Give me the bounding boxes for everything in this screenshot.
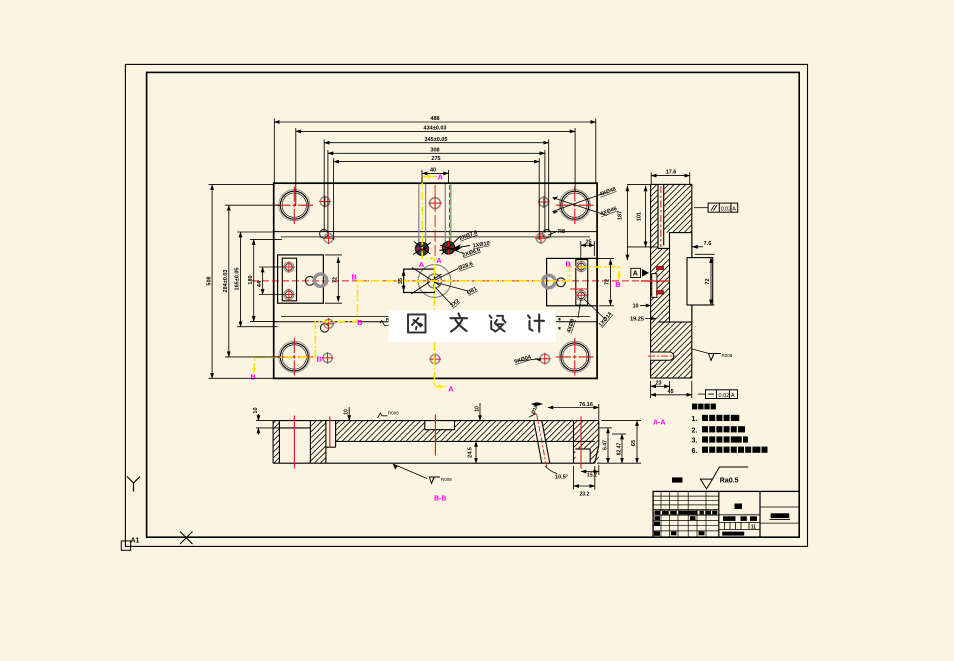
sprue puller hole left (dark) bbox=[415, 242, 430, 257]
top extension lines bbox=[273, 119, 275, 184]
AA mid column hatch bbox=[651, 248, 670, 322]
svg-text:A: A bbox=[731, 393, 735, 399]
svg-text:19.25: 19.25 bbox=[630, 317, 644, 323]
title block outer bbox=[653, 491, 799, 537]
svg-text:72: 72 bbox=[705, 278, 711, 284]
left grid columns bbox=[661, 491, 706, 537]
svg-text:23: 23 bbox=[655, 380, 661, 386]
insert rect bbox=[687, 258, 713, 305]
surface symbol inside view bbox=[380, 321, 390, 326]
channel red centerline bbox=[660, 186, 662, 247]
svg-text:Ra0.5: Ra0.5 bbox=[720, 478, 739, 485]
tech line 2 bbox=[692, 426, 746, 434]
AA body outline bbox=[651, 184, 692, 378]
svg-text:4XØ46: 4XØ46 bbox=[600, 206, 618, 217]
svg-text:A: A bbox=[633, 271, 638, 278]
leaders top right 4X048 bbox=[380, 186, 618, 365]
A arrow box bbox=[631, 268, 649, 277]
tech line 3 bbox=[692, 436, 749, 444]
surface symbol right bbox=[692, 349, 733, 361]
AA top right block hatch bbox=[664, 184, 692, 232]
slot top hole bbox=[429, 197, 442, 210]
svg-text:72: 72 bbox=[605, 279, 611, 285]
svg-text:7.6: 7.6 bbox=[704, 241, 712, 247]
sprue puller hole right (dark) bbox=[442, 241, 456, 255]
BB surface symbols bbox=[378, 411, 453, 484]
centre block bbox=[404, 269, 435, 292]
red plugs bbox=[657, 266, 664, 269]
AA dims bbox=[627, 172, 715, 398]
watermark glyph she bbox=[490, 316, 506, 332]
svg-text:72: 72 bbox=[333, 277, 339, 283]
guide hole TR bbox=[556, 187, 594, 225]
svg-text:10.5°: 10.5° bbox=[555, 475, 568, 481]
svg-text:45: 45 bbox=[667, 389, 673, 395]
left pocket screw top bbox=[283, 261, 294, 272]
small white slot in column bbox=[652, 274, 657, 298]
svg-text:2XØ6.6: 2XØ6.6 bbox=[462, 247, 482, 259]
right centre gray plug bbox=[543, 275, 555, 287]
plot mark X on bottom border bbox=[180, 532, 193, 545]
top dim 345 bbox=[324, 142, 549, 144]
svg-text:10: 10 bbox=[475, 406, 481, 412]
svg-text:6.47: 6.47 bbox=[602, 440, 608, 450]
watermark colon mark bbox=[559, 318, 561, 321]
svg-text:B: B bbox=[352, 272, 358, 281]
watermark white box bbox=[389, 310, 557, 342]
leader X arrows at sprue holes bbox=[413, 237, 470, 255]
svg-text:B: B bbox=[251, 373, 257, 382]
svg-text:4XØ48: 4XØ48 bbox=[599, 186, 617, 197]
left centre gray plug bbox=[314, 274, 326, 286]
BB hatch left cap bbox=[273, 421, 279, 464]
svg-text:24.5: 24.5 bbox=[467, 447, 473, 458]
svg-text:Ø28.6: Ø28.6 bbox=[458, 261, 474, 272]
svg-text:1XØ14: 1XØ14 bbox=[598, 311, 614, 329]
svg-text:Ø18: Ø18 bbox=[531, 404, 540, 415]
left pocket feature bbox=[278, 255, 324, 303]
svg-text:10: 10 bbox=[632, 304, 638, 310]
bottom right leaders bbox=[516, 359, 541, 361]
svg-text:15.2: 15.2 bbox=[587, 472, 597, 478]
svg-text:82.47: 82.47 bbox=[616, 443, 622, 456]
svg-text:R8: R8 bbox=[558, 229, 565, 235]
svg-text:6.: 6. bbox=[692, 448, 698, 455]
section line B-B yellow path bbox=[252, 267, 621, 374]
top dim 488 bbox=[274, 121, 596, 123]
svg-text:488: 488 bbox=[430, 116, 439, 122]
feature dim 72 right bbox=[610, 259, 612, 305]
svg-text:17.6: 17.6 bbox=[666, 170, 677, 176]
svg-text:187: 187 bbox=[618, 211, 624, 220]
svg-text:R008: R008 bbox=[441, 477, 452, 482]
right pocket screw top bbox=[576, 261, 587, 272]
plot mark Y on left border bbox=[127, 477, 140, 492]
left pocket screw bottom bbox=[283, 289, 294, 300]
right centre ring bbox=[557, 278, 566, 287]
tech line 4 bbox=[692, 447, 768, 455]
AA left column hatch bbox=[651, 184, 658, 378]
svg-text:R008: R008 bbox=[722, 353, 733, 358]
svg-text:0.02: 0.02 bbox=[721, 206, 732, 212]
svg-text:284±0.03: 284±0.03 bbox=[223, 270, 229, 293]
svg-text:3.: 3. bbox=[692, 438, 698, 445]
svg-text:275: 275 bbox=[431, 156, 440, 162]
svg-text:76.16: 76.16 bbox=[579, 402, 593, 408]
centre gate circle bbox=[418, 265, 451, 298]
top dim 40 bbox=[422, 172, 449, 174]
corner square A1 bbox=[121, 541, 130, 550]
watermark glyph ji bbox=[528, 315, 544, 332]
right pocket feature bbox=[547, 258, 598, 305]
svg-text:35: 35 bbox=[398, 278, 404, 284]
BB hatch top band segments bbox=[336, 421, 425, 442]
svg-text:10: 10 bbox=[344, 409, 350, 415]
left dims bbox=[211, 185, 213, 379]
main plate outline bbox=[274, 183, 597, 378]
section line A-A yellow path bbox=[422, 174, 446, 388]
left grid rows bbox=[653, 496, 719, 531]
svg-text:1.: 1. bbox=[692, 416, 698, 423]
svg-text:23.2: 23.2 bbox=[580, 492, 590, 498]
top dim 275 bbox=[334, 161, 540, 163]
watermark glyph wen bbox=[451, 314, 468, 332]
svg-text:4XØ8: 4XØ8 bbox=[566, 318, 576, 333]
tolerance box bottom bbox=[698, 390, 738, 399]
svg-text:25: 25 bbox=[585, 239, 591, 245]
svg-text:B: B bbox=[566, 259, 572, 268]
svg-text:B: B bbox=[317, 355, 323, 364]
svg-text:165±0.05: 165±0.05 bbox=[235, 268, 241, 291]
drawing frame outer bbox=[125, 64, 807, 546]
svg-text:2X2: 2X2 bbox=[449, 298, 460, 309]
centre dim 35 bbox=[403, 271, 405, 292]
guide hole TL bbox=[276, 187, 314, 225]
top centre slot bbox=[419, 184, 451, 246]
slot red centerlines bbox=[434, 185, 436, 256]
svg-text:A1: A1 bbox=[131, 538, 140, 545]
left centre ring bbox=[306, 276, 315, 285]
svg-text:2.: 2. bbox=[692, 427, 698, 434]
svg-text:180: 180 bbox=[248, 275, 254, 284]
feature dim 72 left bbox=[337, 258, 339, 302]
centre leader arrows bbox=[411, 268, 468, 306]
svg-text:B: B bbox=[357, 318, 363, 327]
dim 25 top right bbox=[581, 244, 595, 246]
top dim 308 bbox=[328, 152, 545, 154]
svg-text:434±0.03: 434±0.03 bbox=[424, 126, 447, 132]
BB hatch block left bbox=[310, 421, 326, 464]
svg-text:10: 10 bbox=[253, 407, 259, 413]
svg-text:40: 40 bbox=[430, 167, 436, 173]
drawing frame inner bbox=[147, 72, 800, 537]
qiyu blob bbox=[672, 477, 683, 482]
middle section bbox=[719, 515, 760, 530]
svg-text:A-A: A-A bbox=[653, 420, 665, 427]
cavity line bottom inner bbox=[281, 316, 590, 318]
top dim 434 bbox=[296, 130, 575, 132]
main vertical dividers bbox=[718, 491, 720, 537]
dim texts top bbox=[424, 116, 592, 245]
svg-text:308: 308 bbox=[430, 147, 439, 153]
svg-text:Ø81: Ø81 bbox=[466, 286, 478, 296]
corner rings and screw holes bbox=[320, 230, 551, 332]
svg-text:65: 65 bbox=[631, 440, 637, 446]
BB outline bbox=[273, 421, 599, 464]
AA red horizontal centerline bbox=[641, 280, 670, 282]
svg-text:A: A bbox=[438, 173, 444, 182]
left extension lines bbox=[209, 184, 274, 186]
cavity line bottom bbox=[274, 321, 597, 323]
cavity line top inner bbox=[281, 236, 590, 238]
svg-text:44: 44 bbox=[257, 280, 263, 287]
channel bbox=[657, 184, 659, 248]
R8 leader bbox=[548, 232, 557, 236]
BB angled slot white bbox=[534, 421, 550, 464]
main surface symbol bbox=[700, 467, 748, 489]
right pocket screw bottom bbox=[570, 289, 588, 301]
svg-text:345±0.05: 345±0.05 bbox=[425, 137, 448, 143]
svg-text:101: 101 bbox=[637, 212, 643, 221]
guide hole BR bbox=[556, 338, 594, 376]
svg-text:B-B: B-B bbox=[434, 496, 446, 503]
svg-text:B: B bbox=[615, 280, 621, 289]
svg-text:5XØ04: 5XØ04 bbox=[514, 354, 533, 365]
BB dims bbox=[256, 403, 641, 490]
dim texts left (rotated) bbox=[206, 268, 610, 293]
tolerance box top bbox=[694, 203, 738, 212]
tech requirements title bbox=[692, 404, 716, 410]
BB hatch right block bbox=[574, 421, 599, 464]
red main horizontal centerline bbox=[252, 280, 674, 282]
pin slot bottom bbox=[648, 352, 676, 360]
pocket bbox=[670, 233, 692, 322]
BB red lines bbox=[294, 415, 581, 469]
left grid black band bbox=[654, 510, 717, 535]
svg-text:508: 508 bbox=[206, 276, 212, 285]
BB angled red centerline bbox=[537, 414, 547, 469]
cavity line top bbox=[274, 231, 597, 233]
svg-text:11: 11 bbox=[751, 525, 757, 531]
magenta section letters bbox=[251, 173, 622, 394]
right section bbox=[760, 507, 799, 523]
watermark glyph tu bbox=[408, 315, 426, 333]
svg-text:0.02: 0.02 bbox=[719, 393, 730, 399]
svg-text:A: A bbox=[436, 256, 442, 265]
guide hole BL bbox=[276, 338, 314, 376]
svg-text:R008: R008 bbox=[388, 411, 399, 416]
svg-text:A: A bbox=[732, 206, 736, 212]
svg-text:A: A bbox=[419, 260, 425, 269]
tech line 1 bbox=[692, 415, 740, 423]
AA bottom block hatch bbox=[651, 322, 692, 378]
svg-text:A: A bbox=[448, 384, 454, 393]
